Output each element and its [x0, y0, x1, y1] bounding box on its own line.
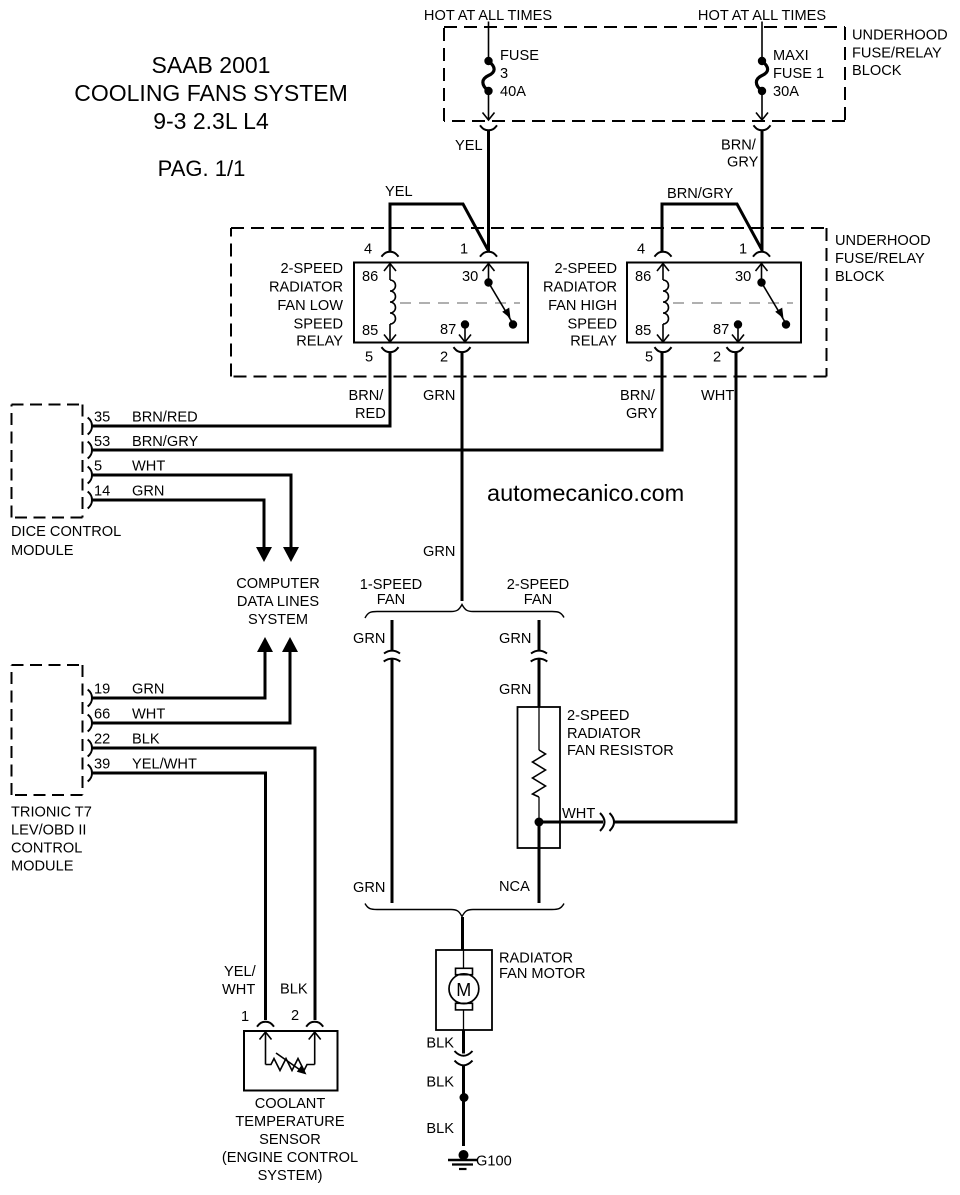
- svg-text:2-SPEED: 2-SPEED: [507, 577, 569, 593]
- svg-text:GRN: GRN: [132, 682, 164, 698]
- svg-text:COOLANT: COOLANT: [255, 1096, 326, 1112]
- svg-text:SYSTEM): SYSTEM): [258, 1168, 323, 1184]
- svg-text:YEL/: YEL/: [224, 964, 257, 980]
- svg-text:RED: RED: [355, 406, 386, 422]
- svg-text:FUSE/RELAY: FUSE/RELAY: [852, 46, 942, 62]
- svg-text:BRN/: BRN/: [349, 388, 385, 404]
- svg-text:19: 19: [94, 682, 110, 698]
- svg-text:39: 39: [94, 757, 110, 773]
- svg-text:UNDERHOOD: UNDERHOOD: [852, 28, 948, 44]
- svg-text:2-SPEED: 2-SPEED: [567, 708, 629, 724]
- svg-text:5: 5: [645, 350, 653, 366]
- svg-text:66: 66: [94, 707, 110, 723]
- svg-text:NCA: NCA: [499, 879, 530, 895]
- svg-text:FAN LOW: FAN LOW: [277, 298, 343, 314]
- svg-text:MODULE: MODULE: [11, 859, 74, 875]
- svg-text:5: 5: [365, 350, 373, 366]
- svg-text:BLK: BLK: [426, 1121, 454, 1137]
- svg-text:WHT: WHT: [701, 388, 734, 404]
- svg-text:1-SPEED: 1-SPEED: [360, 577, 422, 593]
- svg-text:LEV/OBD II: LEV/OBD II: [11, 823, 86, 839]
- svg-text:FUSE: FUSE: [500, 48, 539, 64]
- svg-text:RELAY: RELAY: [570, 334, 617, 350]
- svg-text:RADIATOR: RADIATOR: [543, 280, 617, 296]
- svg-text:5: 5: [94, 459, 102, 475]
- svg-text:WHT: WHT: [132, 459, 165, 475]
- svg-text:BLK: BLK: [426, 1075, 454, 1091]
- svg-text:3: 3: [500, 66, 508, 82]
- svg-text:DICE CONTROL: DICE CONTROL: [11, 524, 121, 540]
- svg-text:9-3 2.3L L4: 9-3 2.3L L4: [153, 108, 269, 134]
- svg-text:85: 85: [362, 323, 378, 339]
- svg-text:40A: 40A: [500, 84, 526, 100]
- svg-text:2: 2: [440, 350, 448, 366]
- svg-text:YEL: YEL: [385, 184, 413, 200]
- svg-text:GRY: GRY: [727, 155, 759, 171]
- svg-text:GRN: GRN: [423, 388, 455, 404]
- svg-text:WHT: WHT: [132, 707, 165, 723]
- svg-text:MODULE: MODULE: [11, 543, 74, 559]
- svg-text:53: 53: [94, 434, 110, 450]
- svg-text:87: 87: [440, 322, 456, 338]
- svg-text:DATA LINES: DATA LINES: [237, 594, 319, 610]
- svg-text:SAAB 2001: SAAB 2001: [152, 52, 271, 78]
- svg-text:BLK: BLK: [280, 982, 308, 998]
- svg-text:RELAY: RELAY: [296, 334, 343, 350]
- svg-text:BRN/GRY: BRN/GRY: [667, 186, 733, 202]
- svg-text:35: 35: [94, 410, 110, 426]
- svg-text:1: 1: [739, 242, 747, 258]
- svg-text:TRIONIC T7: TRIONIC T7: [11, 805, 92, 821]
- svg-text:RADIATOR: RADIATOR: [499, 951, 573, 967]
- svg-text:FAN HIGH: FAN HIGH: [548, 298, 617, 314]
- svg-text:4: 4: [364, 242, 372, 258]
- svg-text:SYSTEM: SYSTEM: [248, 612, 308, 628]
- svg-text:RADIATOR: RADIATOR: [269, 280, 343, 296]
- svg-text:14: 14: [94, 484, 110, 500]
- svg-text:YEL/WHT: YEL/WHT: [132, 757, 197, 773]
- svg-text:M: M: [456, 980, 471, 1000]
- svg-text:BLK: BLK: [132, 732, 160, 748]
- svg-text:1: 1: [241, 1009, 249, 1025]
- svg-text:BRN/: BRN/: [721, 138, 757, 154]
- svg-text:BLOCK: BLOCK: [835, 269, 885, 285]
- svg-text:COOLING FANS SYSTEM: COOLING FANS SYSTEM: [74, 80, 348, 106]
- svg-text:GRN: GRN: [353, 880, 385, 896]
- svg-text:FUSE/RELAY: FUSE/RELAY: [835, 251, 925, 267]
- svg-text:FAN RESISTOR: FAN RESISTOR: [567, 743, 674, 759]
- svg-text:YEL: YEL: [455, 138, 483, 154]
- svg-text:G100: G100: [476, 1154, 512, 1170]
- svg-text:30A: 30A: [773, 84, 799, 100]
- svg-text:FAN: FAN: [377, 592, 405, 608]
- svg-text:BRN/GRY: BRN/GRY: [132, 434, 198, 450]
- svg-text:WHT: WHT: [222, 982, 255, 998]
- svg-text:SPEED: SPEED: [568, 317, 617, 333]
- svg-text:22: 22: [94, 732, 110, 748]
- svg-text:2: 2: [291, 1008, 299, 1024]
- svg-text:BLOCK: BLOCK: [852, 63, 902, 79]
- svg-text:2-SPEED: 2-SPEED: [281, 261, 343, 277]
- svg-text:UNDERHOOD: UNDERHOOD: [835, 233, 931, 249]
- svg-text:BLK: BLK: [426, 1036, 454, 1052]
- svg-text:automecanico.com: automecanico.com: [487, 480, 684, 506]
- svg-text:(ENGINE CONTROL: (ENGINE CONTROL: [222, 1150, 358, 1166]
- svg-text:GRN: GRN: [423, 544, 455, 560]
- svg-text:GRN: GRN: [499, 682, 531, 698]
- svg-text:SPEED: SPEED: [294, 317, 343, 333]
- svg-text:CONTROL: CONTROL: [11, 841, 82, 857]
- svg-text:RADIATOR: RADIATOR: [567, 726, 641, 742]
- svg-text:GRN: GRN: [132, 484, 164, 500]
- svg-text:BRN/RED: BRN/RED: [132, 410, 198, 426]
- svg-text:FAN: FAN: [524, 592, 552, 608]
- svg-text:1: 1: [460, 242, 468, 258]
- svg-text:BRN/: BRN/: [620, 388, 656, 404]
- svg-text:86: 86: [362, 269, 378, 285]
- svg-text:SENSOR: SENSOR: [259, 1132, 321, 1148]
- svg-text:COMPUTER: COMPUTER: [236, 576, 320, 592]
- svg-text:FUSE 1: FUSE 1: [773, 66, 824, 82]
- svg-text:30: 30: [462, 269, 478, 285]
- svg-text:GRY: GRY: [626, 406, 658, 422]
- svg-text:WHT: WHT: [562, 806, 595, 822]
- svg-text:2-SPEED: 2-SPEED: [555, 261, 617, 277]
- svg-text:TEMPERATURE: TEMPERATURE: [235, 1114, 344, 1130]
- svg-text:PAG. 1/1: PAG. 1/1: [158, 156, 246, 181]
- svg-text:FAN MOTOR: FAN MOTOR: [499, 966, 586, 982]
- svg-text:GRN: GRN: [353, 631, 385, 647]
- svg-text:GRN: GRN: [499, 631, 531, 647]
- svg-text:MAXI: MAXI: [773, 48, 809, 64]
